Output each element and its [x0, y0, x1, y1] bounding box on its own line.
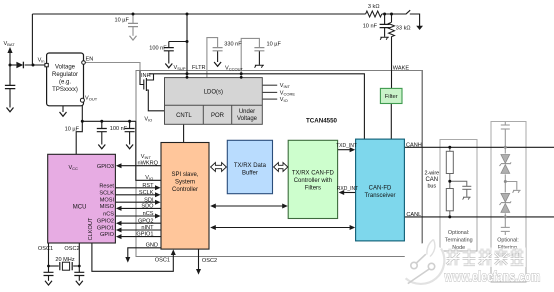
svg-text:Reset: Reset	[99, 183, 114, 189]
svg-text:10 nF: 10 nF	[363, 23, 378, 29]
svg-text:Controller with: Controller with	[294, 178, 332, 184]
svg-text:GPIO1: GPIO1	[97, 226, 114, 232]
svg-text:RXD_INT: RXD_INT	[337, 186, 358, 192]
svg-text:SCLK: SCLK	[139, 190, 154, 196]
svg-text:nWKRQ: nWKRQ	[137, 160, 158, 166]
svg-text:Regulator: Regulator	[52, 72, 78, 78]
svg-text:VCORE: VCORE	[280, 91, 296, 97]
svg-text:VOUT: VOUT	[85, 95, 98, 101]
svg-text:20 MHz: 20 MHz	[55, 257, 74, 263]
svg-text:GPIO: GPIO	[100, 232, 115, 238]
svg-text:Controller: Controller	[172, 187, 198, 193]
svg-text:VIO: VIO	[280, 97, 288, 103]
svg-text:TX/RX CAN-FD: TX/RX CAN-FD	[292, 170, 335, 176]
svg-text:CANH: CANH	[406, 142, 422, 148]
svg-text:Vin: Vin	[38, 58, 45, 64]
svg-text:2-wire: 2-wire	[424, 170, 439, 176]
svg-text:RST: RST	[142, 183, 154, 189]
svg-text:Terminating: Terminating	[445, 237, 473, 243]
svg-text:TX/RX Data: TX/RX Data	[234, 163, 267, 169]
svg-text:OSC2: OSC2	[202, 258, 217, 264]
svg-text:www.elecfans.com: www.elecfans.com	[444, 270, 541, 286]
svg-text:bus: bus	[427, 184, 436, 190]
svg-text:GND: GND	[146, 243, 158, 249]
svg-text:Optional:: Optional:	[448, 230, 470, 236]
svg-text:MCU: MCU	[73, 205, 87, 211]
svg-text:100 nF: 100 nF	[110, 126, 128, 132]
svg-text:CANL: CANL	[406, 212, 421, 218]
svg-text:TCAN4550: TCAN4550	[306, 118, 338, 125]
svg-text:Optional:: Optional:	[497, 238, 519, 244]
svg-text:Voltage: Voltage	[237, 116, 258, 122]
svg-text:OSC1: OSC1	[155, 258, 170, 264]
svg-text:VIO: VIO	[145, 175, 153, 181]
svg-text:TXD_INT: TXD_INT	[336, 143, 357, 149]
svg-text:LDO(s): LDO(s)	[204, 90, 223, 96]
svg-text:VBAT: VBAT	[4, 41, 16, 47]
svg-text:Filter: Filter	[385, 94, 398, 100]
svg-text:VCCOUT: VCCOUT	[225, 65, 244, 71]
svg-text:GPIO3: GPIO3	[97, 164, 114, 170]
svg-text:3 kΩ: 3 kΩ	[368, 4, 380, 10]
svg-text:CNTL: CNTL	[176, 113, 192, 119]
svg-text:MOSI: MOSI	[100, 198, 115, 204]
svg-text:330 nF: 330 nF	[224, 42, 242, 48]
svg-text:OSC1: OSC1	[38, 246, 53, 252]
svg-text:System: System	[175, 180, 195, 186]
svg-text:Node: Node	[452, 245, 465, 251]
svg-text:SDI: SDI	[144, 197, 154, 203]
svg-text:nINT: nINT	[141, 225, 154, 231]
svg-text:(e.g.: (e.g.	[59, 80, 71, 86]
svg-text:SPI slave,: SPI slave,	[171, 172, 198, 178]
svg-text:10 µF: 10 µF	[65, 126, 80, 132]
svg-text:POR: POR	[211, 113, 225, 119]
svg-text:CAN-FD: CAN-FD	[369, 185, 392, 191]
svg-text:MISO: MISO	[100, 204, 115, 210]
svg-text:OSC2: OSC2	[64, 246, 79, 252]
svg-text:WAKE: WAKE	[393, 66, 410, 72]
svg-text:100 nF: 100 nF	[149, 46, 167, 52]
svg-text:Under: Under	[239, 109, 255, 115]
svg-text:SCLK: SCLK	[99, 190, 114, 196]
svg-text:TPSxxxx): TPSxxxx)	[52, 87, 78, 93]
svg-text:FLTR: FLTR	[192, 65, 206, 71]
svg-text:CLKOUT: CLKOUT	[88, 217, 94, 240]
svg-text:VINT: VINT	[141, 154, 152, 160]
svg-text:Filters: Filters	[305, 185, 321, 191]
svg-text:EN: EN	[86, 57, 94, 63]
svg-text:VIO: VIO	[144, 117, 152, 123]
svg-text:nCS: nCS	[103, 212, 114, 218]
svg-text:VSUP: VSUP	[174, 65, 186, 71]
svg-text:Transceiver: Transceiver	[364, 193, 395, 199]
svg-text:Voltage: Voltage	[55, 65, 76, 71]
svg-text:VCC: VCC	[68, 165, 78, 171]
svg-text:SDO: SDO	[141, 204, 154, 210]
svg-text:GPO2: GPO2	[138, 218, 154, 224]
svg-text:GPIO1: GPIO1	[136, 232, 153, 238]
svg-text:33 kΩ: 33 kΩ	[396, 25, 411, 31]
svg-text:GPIO2: GPIO2	[97, 219, 114, 225]
svg-text:10 µF: 10 µF	[114, 17, 129, 23]
svg-text:INH: INH	[141, 73, 151, 79]
svg-text:VINT: VINT	[280, 83, 291, 89]
svg-text:Buffer: Buffer	[242, 170, 258, 176]
svg-text:10 µF: 10 µF	[267, 42, 282, 48]
svg-text:nCS: nCS	[143, 211, 154, 217]
svg-text:CAN: CAN	[425, 177, 438, 183]
